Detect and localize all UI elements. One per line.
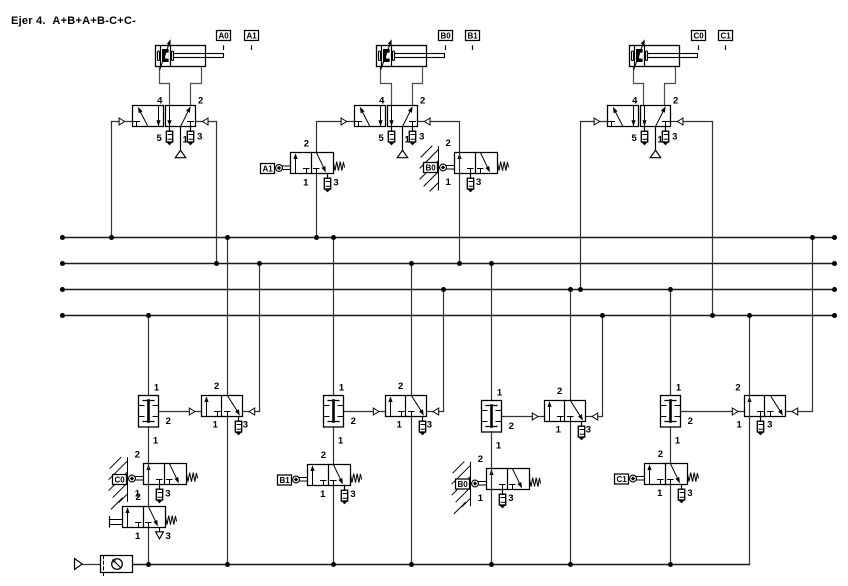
wire: bus 2 down to memory valve V1 right pilot: [243, 264, 260, 412]
wire: valve B0b port 1 down to supply bus: [491, 490, 493, 565]
3/2 start valve (plunger, spring return): [123, 507, 166, 528]
wire: bus 4 down to memory valve V3 right pilot: [586, 316, 603, 417]
wire: AND valve D3 bottom port down to valve B0b port 2: [491, 432, 493, 469]
svg-text:2: 2: [135, 450, 140, 461]
wire: memory valve V3 port 1 down to supply bus: [570, 422, 572, 565]
valve B port 5 silencer: [388, 127, 394, 145]
start valve port 3 exhaust: [156, 528, 164, 539]
svg-text:2: 2: [557, 386, 562, 397]
label box B0: [439, 31, 453, 41]
svg-text:C0: C0: [114, 476, 125, 485]
svg-text:3: 3: [333, 178, 338, 189]
wire: air source to service unit: [82, 564, 100, 566]
valve C0 roller: [129, 475, 143, 482]
wire: bus 3 down to AND valve D4 top port: [670, 290, 672, 396]
cylinder A (double-acting, magnetic piston): [156, 39, 224, 69]
position tick C1: [725, 46, 727, 49]
svg-text:B1: B1: [279, 476, 290, 485]
junction dot supply bus / valve B0b port 1: [489, 562, 494, 567]
junction dot bus3 / memory valve V2 right pilot: [441, 287, 446, 292]
wire: cylinder A right port to valve A port 2: [191, 67, 202, 106]
svg-text:1: 1: [478, 493, 484, 504]
AND valve D3 port labels: [496, 388, 514, 452]
svg-text:1: 1: [736, 420, 742, 431]
label box C0: [692, 31, 706, 41]
junction dot bus2 left end: [60, 261, 65, 266]
3/2 limit valve A1 (roller, spring return): [291, 153, 334, 174]
wire: AND valve D3 output to memory valve V3 left pilot: [502, 416, 545, 418]
svg-text:1: 1: [445, 177, 451, 188]
svg-text:1: 1: [397, 420, 403, 431]
wire: cylinder B right port to valve B port 2: [413, 67, 423, 106]
valve B0b port labels: [478, 454, 514, 504]
start valve plunger actuator: [110, 517, 123, 528]
junction dot supply bus / memory valve V2 port 1: [409, 562, 414, 567]
svg-text:1: 1: [338, 435, 344, 446]
junction dot bus2 / memory valve V2 output: [409, 261, 414, 266]
svg-text:B0: B0: [457, 480, 468, 489]
wire: bus 4 down to AND valve D1 top port: [148, 316, 150, 396]
5/2-way double pilot valve C: [594, 106, 683, 158]
valve B0b label box: [456, 479, 470, 489]
svg-text:5: 5: [157, 133, 163, 144]
svg-text:1: 1: [303, 178, 309, 189]
memory 3/2 valve V3 (double pilot): [532, 401, 597, 422]
wire: bus 4 down to memory valve V4 port 2: [749, 316, 751, 396]
label box B1: [466, 31, 480, 41]
wire: AND valve D2 bottom port down to valve B1 port 2: [333, 427, 335, 465]
wire: valve A left pilot horizontal: [112, 121, 133, 123]
position tick B0: [445, 46, 447, 49]
wire: memory valve V1 port 1 down to supply bus: [227, 417, 229, 565]
valve C0 return spring: [187, 473, 198, 482]
valve B1 label box: [278, 475, 292, 485]
bus line 4 (C- signal bus): [63, 315, 835, 317]
junction dot supply bus / valve C1 port 1: [668, 562, 673, 567]
memory 3/2 valve V4 (double pilot, actuated position): [732, 396, 797, 417]
position tick A0: [223, 46, 225, 49]
svg-text:B0: B0: [425, 164, 436, 173]
AND valve D1 port labels: [153, 383, 171, 447]
svg-text:5: 5: [379, 133, 385, 144]
supply bus line (from air service unit): [133, 564, 750, 566]
svg-text:3: 3: [197, 132, 202, 143]
svg-text:4: 4: [632, 95, 638, 106]
valve B0b actuating wall hatch: [452, 462, 471, 514]
position tick A1: [251, 46, 253, 49]
svg-text:3: 3: [508, 493, 513, 504]
valve C1 port 3 silencer: [678, 485, 684, 503]
valve C1 port labels: [657, 449, 692, 499]
svg-text:1: 1: [339, 383, 345, 394]
svg-text:1: 1: [320, 489, 326, 500]
junction dot bus2 / AND valve D3 feed: [489, 261, 494, 266]
wire: cylinder C right port to valve C port 2: [665, 67, 676, 106]
valve C0 port 3 silencer: [156, 485, 162, 503]
junction dot bus4 left end: [60, 313, 65, 318]
svg-text:Ejer 4. A+B+A+B-C+C-: Ejer 4. A+B+A+B-C+C-: [11, 15, 136, 27]
AND valve D1 (two-pressure valve): [139, 396, 159, 428]
svg-text:3: 3: [165, 531, 170, 542]
junction dot bus1 / valve A left pilot: [109, 235, 114, 240]
svg-text:3: 3: [476, 177, 481, 188]
valve A1 roller: [276, 165, 290, 172]
svg-text:3: 3: [243, 420, 248, 431]
valve B1 return spring: [351, 474, 362, 483]
svg-text:3: 3: [672, 132, 677, 143]
wire: memory valve V2 port 1 down to supply bus: [411, 417, 413, 565]
svg-text:1: 1: [135, 531, 141, 542]
svg-text:2: 2: [136, 492, 141, 503]
junction dot bus3 left end: [60, 287, 65, 292]
wire: valve C right pilot down to bus 4: [712, 122, 714, 316]
valve B0 return spring: [498, 162, 509, 171]
AND valve D2 (two-pressure valve): [324, 396, 344, 428]
valve B1 port 3 silencer: [341, 486, 347, 504]
valve B0b port 3 silencer: [499, 490, 505, 508]
svg-text:2: 2: [688, 416, 693, 427]
wire: AND valve D4 output to memory valve V4 left pilot: [681, 411, 745, 413]
valve B0 actuating wall hatch: [420, 146, 439, 191]
valve B port 3 silencer: [409, 127, 415, 145]
cylinder C (double-acting, magnetic piston): [630, 39, 698, 69]
label box A0: [217, 31, 231, 41]
svg-text:C0: C0: [693, 32, 704, 41]
memory valve V3 port 3 silencer: [578, 422, 584, 440]
svg-text:2: 2: [478, 454, 483, 465]
memory valve V3 port labels: [556, 386, 591, 436]
valve C port 5 silencer: [641, 127, 647, 145]
memory valve V2 port labels: [397, 381, 432, 431]
junction dot supply bus / memory valve V3 port 1: [568, 562, 573, 567]
label box A1: [245, 31, 259, 41]
wire: valve C1 port 1 down to supply bus: [670, 485, 672, 565]
5/2-way double pilot valve B: [341, 106, 430, 158]
svg-text:2: 2: [304, 139, 309, 150]
junction dot bus2 right end: [832, 261, 837, 266]
valve A1 label box: [261, 164, 275, 174]
svg-text:3: 3: [350, 489, 355, 500]
3/2 limit valve C0 (roller, spring return, actuated): [144, 464, 187, 485]
valve B1 roller: [293, 476, 307, 483]
svg-text:2: 2: [398, 381, 403, 392]
start valve return spring: [166, 516, 177, 525]
wire: valve B1 port 1 down to supply bus: [333, 486, 335, 565]
valve B0 port labels: [445, 138, 481, 188]
svg-text:1: 1: [657, 488, 663, 499]
valve C1 return spring: [688, 473, 699, 482]
wire: bus 1 down to AND valve D2 top port: [333, 238, 335, 396]
valve A1 return spring: [334, 162, 345, 171]
AND valve D4 port labels: [675, 383, 693, 447]
svg-text:2: 2: [214, 381, 219, 392]
wire: valve C0 port 1 down to start valve port 2: [148, 485, 150, 507]
wire: AND valve D1 output to memory valve V1 left pilot: [159, 411, 202, 413]
bus line 3 (C+ signal bus): [63, 289, 835, 291]
junction dot bus2 / valve A right pilot: [214, 261, 219, 266]
3/2 limit valve B0 (roller, spring return, actuated): [455, 153, 498, 174]
svg-text:5: 5: [632, 133, 638, 144]
junction dot supply bus / valve B1 port 1: [331, 562, 336, 567]
wire: valve A1 port 2 up and right to valve B left pilot: [317, 122, 355, 153]
compressed air source: [75, 559, 83, 570]
3/2 limit valve B1 (roller, spring return): [308, 465, 351, 486]
wire: valve A left pilot down to bus 1: [111, 122, 113, 238]
svg-text:1: 1: [153, 435, 159, 446]
svg-text:2: 2: [351, 416, 356, 427]
junction dot bus1 / AND valve D2 feed: [331, 235, 336, 240]
position tick C0: [698, 46, 700, 49]
svg-text:1: 1: [675, 435, 681, 446]
bus line 1 (A+ signal bus): [63, 237, 835, 239]
AND valve D2 port labels: [338, 383, 356, 447]
junction dot bus4 / memory valve V4 output: [747, 313, 752, 318]
wire: bus 1 down to memory valve V1 port 2: [227, 238, 229, 396]
junction dot bus3 / valve C left pilot: [578, 287, 583, 292]
junction dot bus1 / memory valve V1 output: [225, 235, 230, 240]
wire: valve A right pilot down to bus 2: [216, 122, 218, 264]
valve C port labels: [632, 95, 679, 145]
memory 3/2 valve V1 (double pilot): [189, 396, 254, 417]
svg-text:B1: B1: [467, 32, 478, 41]
valve A port 5 silencer: [166, 127, 172, 145]
bus line 2 (A- signal bus): [63, 263, 835, 265]
wire: AND valve D2 output to memory valve V2 left pilot: [344, 411, 386, 413]
memory valve V4 port 3 silencer: [757, 417, 763, 435]
valve C0 port 2/1 through-line: [148, 464, 150, 485]
wire: memory valve V4 port 1 down to supply bus corner: [749, 417, 751, 565]
svg-text:1: 1: [154, 383, 160, 394]
memory valve V4 port 2/1 through-line: [749, 396, 751, 417]
junction dot supply bus / memory valve V1 port 1: [225, 562, 230, 567]
svg-text:2: 2: [445, 138, 450, 149]
svg-text:1: 1: [213, 420, 219, 431]
svg-text:A1: A1: [246, 32, 257, 41]
svg-text:2: 2: [321, 450, 326, 461]
wire: bus 2 down to AND valve D3 top port: [491, 264, 493, 401]
junction dot bus4 / AND valve D1 feed: [146, 313, 151, 318]
valve B1 port labels: [320, 450, 355, 500]
svg-text:2: 2: [509, 421, 514, 432]
wire: AND valve D4 bottom port down to valve C1 port 2: [670, 427, 672, 464]
cylinder B (double-acting, magnetic piston): [377, 39, 445, 69]
valve C0 label box: [113, 475, 127, 485]
wire: start valve port 1 down to supply bus: [148, 528, 150, 565]
AND valve D4 (two-pressure valve): [661, 396, 681, 428]
svg-text:A0: A0: [218, 32, 229, 41]
svg-text:C1: C1: [720, 32, 731, 41]
svg-text:3: 3: [586, 425, 591, 436]
junction dot bus1 / valve A1 port 1: [314, 235, 319, 240]
valve B port labels: [379, 95, 426, 145]
svg-text:4: 4: [157, 95, 163, 106]
air service unit: [101, 556, 133, 577]
svg-text:3: 3: [687, 488, 692, 499]
wire: valve A right pilot horizontal: [196, 121, 217, 123]
junction dot bus3 / AND valve D4 feed: [668, 287, 673, 292]
svg-text:2: 2: [166, 416, 171, 427]
valve C0 port labels: [135, 450, 171, 500]
junction dot bus4 / valve C right pilot: [710, 313, 715, 318]
junction dot bus3 right end: [832, 287, 837, 292]
wire: valve B0 port 1 down to bus 2: [459, 174, 461, 264]
valve C port 3 silencer: [662, 127, 668, 145]
junction dot bus2 / memory valve V1 right pilot: [257, 261, 262, 266]
valve B0 port 3 silencer: [467, 174, 473, 192]
wire: valve C left pilot down to bus 3: [580, 122, 582, 290]
svg-text:1: 1: [676, 383, 682, 394]
wire: bus 1 down to memory valve V4 right pilot: [786, 238, 813, 412]
memory valve V2 port 3 silencer: [419, 417, 425, 435]
wire: bus 3 down to memory valve V3 port 2: [570, 290, 572, 401]
memory valve V4 port labels: [735, 383, 772, 431]
wire: corner down to valve B0 port 2: [459, 122, 461, 153]
valve A port labels: [157, 95, 204, 145]
svg-text:2: 2: [735, 383, 740, 394]
wire: valve C right pilot horizontal to corner: [670, 121, 713, 123]
label box C1: [719, 31, 733, 41]
junction dot bus2 / valve B0 port 1: [457, 261, 462, 266]
valve A1 port 3 silencer: [324, 174, 330, 192]
svg-text:4: 4: [379, 95, 385, 106]
svg-text:2: 2: [658, 449, 663, 460]
valve B0 label box: [424, 163, 438, 173]
wire: valve B right pilot horizontal to corner: [418, 121, 460, 123]
junction dot bus3 / memory valve V3 output: [568, 287, 573, 292]
valve A port 3 silencer: [187, 127, 193, 145]
junction dot bus4 right end: [832, 313, 837, 318]
valve C0 actuating wall hatch: [109, 457, 128, 509]
junction dot bus4 / memory valve V3 right pilot: [600, 313, 605, 318]
valve B0b port 2/1 through-line: [491, 469, 493, 490]
wire: AND valve D1 bottom port down to valve C0 port 2: [148, 427, 150, 464]
position tick B1: [472, 46, 474, 49]
valve B0b return spring: [530, 478, 541, 487]
junction dot bus1 left end: [60, 235, 65, 240]
wire: bus 3 down to memory valve V2 right pilot: [427, 290, 444, 412]
svg-text:3: 3: [767, 420, 772, 431]
svg-text:1: 1: [496, 440, 502, 451]
memory 3/2 valve V2 (double pilot): [373, 396, 438, 417]
svg-text:2: 2: [673, 95, 678, 106]
valve C1 roller: [630, 475, 644, 482]
svg-text:B0: B0: [440, 32, 451, 41]
wire: bus 2 down to memory valve V2 port 2: [411, 264, 413, 396]
svg-text:3: 3: [165, 489, 170, 500]
junction dot bus1 right end: [832, 235, 837, 240]
svg-text:1: 1: [556, 425, 562, 436]
junction dot bus1 / memory valve V4 right pilot: [810, 235, 815, 240]
valve B0 port 2/1 through-line: [459, 153, 461, 174]
svg-text:3: 3: [419, 132, 424, 143]
valve A1 port labels: [303, 139, 338, 189]
wire: cylinder A left port to valve A port 4: [160, 67, 170, 106]
svg-text:2: 2: [198, 95, 203, 106]
valve B0b roller: [472, 480, 486, 487]
3/2 limit valve B0b (roller, spring return, actuated): [487, 469, 530, 490]
wire: cylinder B left port to valve B port 4: [381, 67, 392, 106]
valve C1 label box: [615, 474, 629, 484]
svg-text:1: 1: [497, 388, 503, 399]
svg-text:3: 3: [427, 420, 432, 431]
junction dot supply bus / start valve port 1: [146, 562, 151, 567]
svg-text:C1: C1: [616, 475, 627, 484]
wire: valve C left pilot horizontal: [581, 121, 608, 123]
start valve port labels: [135, 492, 171, 542]
valve B0 roller: [440, 164, 454, 171]
memory valve V1 port 3 silencer: [235, 417, 241, 435]
svg-text:A1: A1: [262, 165, 273, 174]
AND valve D3 (two-pressure valve): [482, 401, 502, 433]
svg-text:2: 2: [420, 95, 425, 106]
3/2 limit valve C1 (roller, spring return): [645, 464, 688, 485]
wire: valve A1 port 1 down to bus 1: [316, 174, 318, 238]
5/2-way double pilot valve A: [119, 106, 208, 158]
memory valve V1 port labels: [213, 381, 248, 431]
wire: cylinder C left port to valve C port 4: [634, 67, 644, 106]
